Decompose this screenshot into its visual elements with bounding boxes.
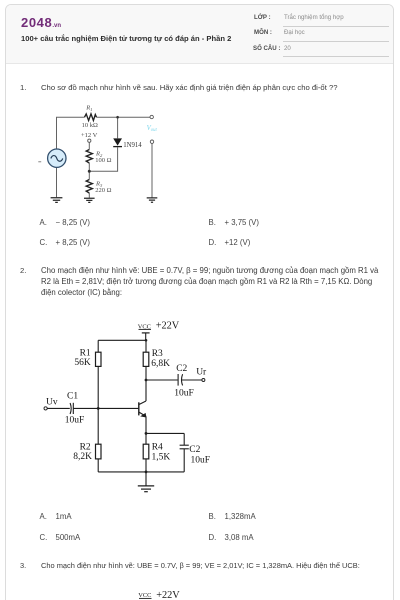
svg-text:10uF: 10uF — [65, 416, 85, 426]
svg-text:R3: R3 — [152, 349, 163, 359]
svg-text:C2: C2 — [176, 364, 187, 374]
svg-text:C2: C2 — [189, 445, 200, 455]
svg-text:Uv: Uv — [46, 398, 58, 408]
svg-text:Ur: Ur — [196, 368, 207, 378]
svg-text:R4: R4 — [152, 442, 163, 452]
svg-text:10 kΩ: 10 kΩ — [82, 122, 98, 129]
svg-text:1,5K: 1,5K — [152, 452, 171, 462]
svg-text:C1: C1 — [67, 392, 78, 402]
svg-text:220 Ω: 220 Ω — [95, 187, 111, 194]
svg-text:Vout: Vout — [147, 125, 158, 133]
svg-text:56K: 56K — [74, 358, 91, 368]
svg-text:8,2K: 8,2K — [73, 452, 92, 462]
svg-text:R2: R2 — [80, 442, 91, 452]
svg-text:10uF: 10uF — [174, 388, 194, 398]
svg-text:VCC: VCC — [138, 323, 151, 330]
svg-text:10uF: 10uF — [191, 455, 211, 465]
svg-text:100 Ω: 100 Ω — [95, 157, 111, 164]
svg-text:+22V: +22V — [156, 590, 180, 600]
svg-text:6,8K: 6,8K — [151, 359, 170, 369]
svg-text:+12 V: +12 V — [81, 132, 98, 139]
svg-text:+22V: +22V — [156, 321, 180, 332]
svg-text:1N914: 1N914 — [123, 142, 142, 149]
svg-text:R1: R1 — [85, 105, 92, 112]
svg-text:R1: R1 — [80, 348, 91, 358]
